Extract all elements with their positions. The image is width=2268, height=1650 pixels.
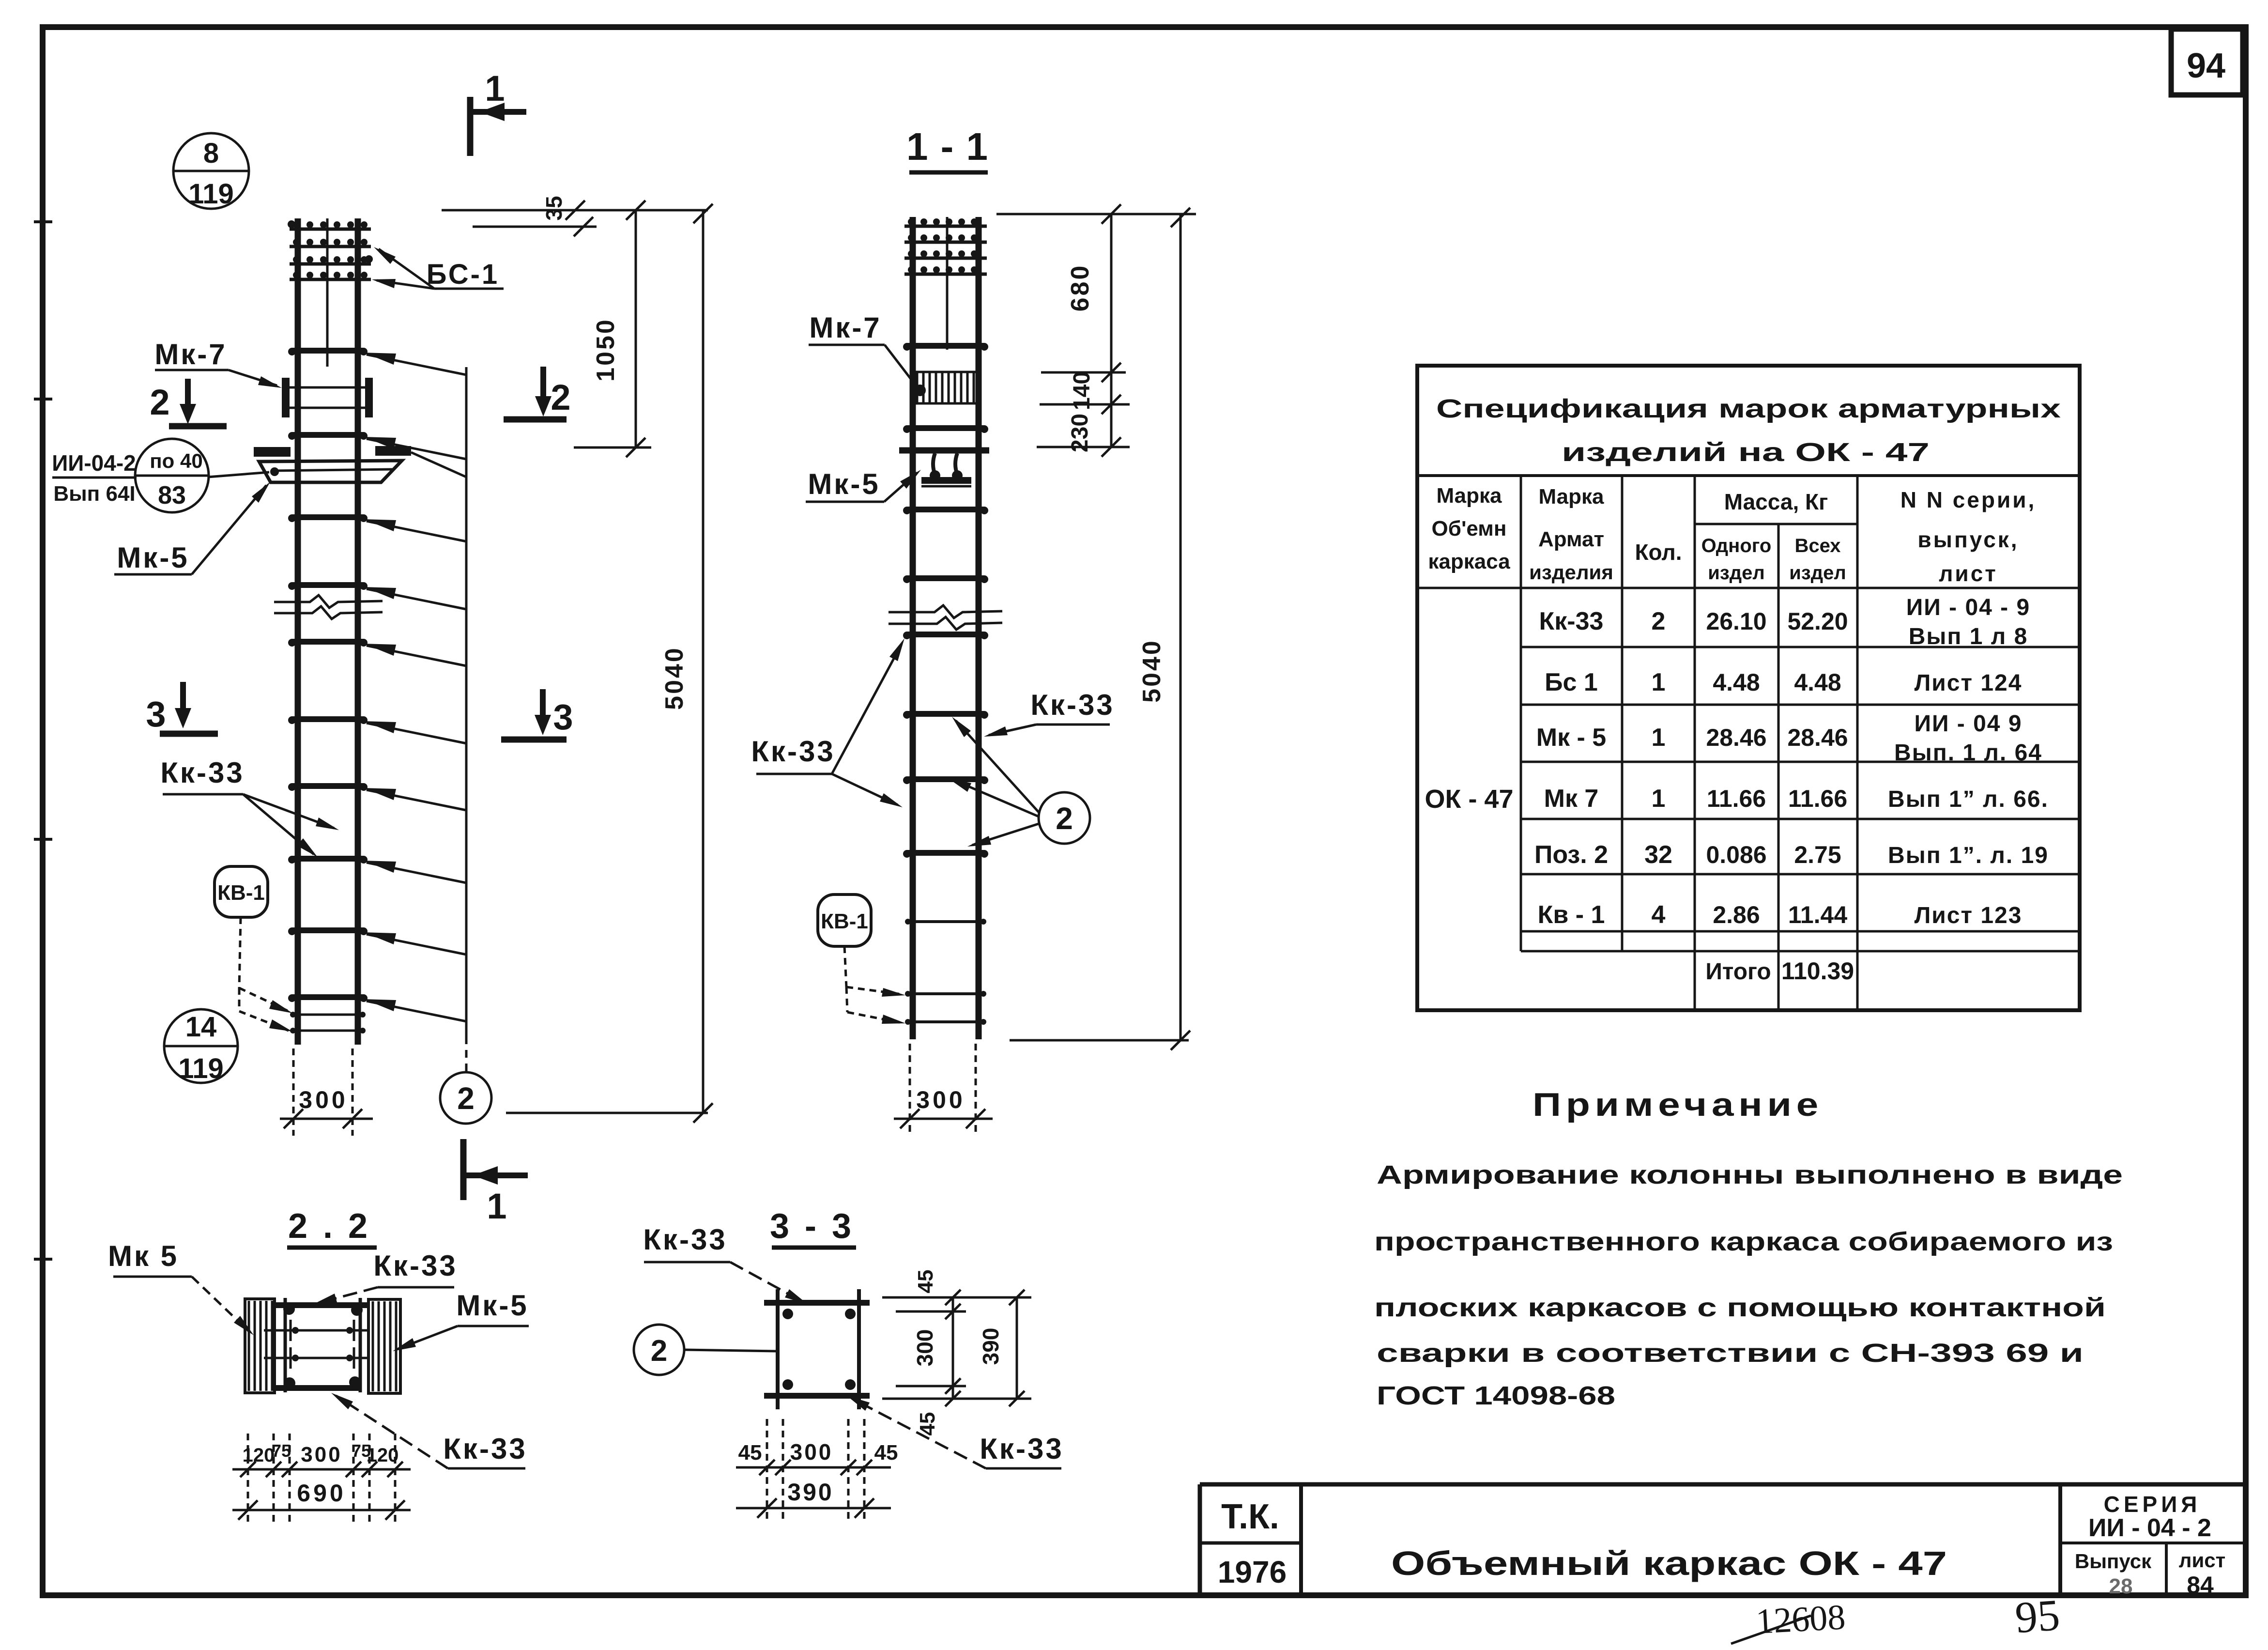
svg-text:45: 45 [874,1441,898,1465]
left elevation: Mk-5 console plates [254,447,291,457]
fold tick marks on left border [34,220,52,223]
svg-text:2 . 2: 2 . 2 [288,1207,370,1246]
svg-text:сварки в соответствии с СН: сварки в соответствии с СН-393 69 и [1377,1339,2084,1368]
left elevation: detail circle 14/119 [164,1009,238,1083]
section 1-1: stirrup rungs [907,343,984,349]
svg-text:пространственного каркаса со: пространственного каркаса собираемого из [1374,1227,2113,1256]
svg-text:300: 300 [790,1439,833,1465]
svg-text:84: 84 [2187,1572,2214,1599]
svg-text:2: 2 [150,382,169,422]
dimension 300 under section 1-1 [909,1044,911,1136]
svg-text:ОК - 47: ОК - 47 [1425,785,1513,814]
svg-text:Мк-5: Мк-5 [117,541,189,574]
svg-text:5040: 5040 [660,646,689,710]
left elevation: stirrup rungs [292,348,364,354]
svg-text:390: 390 [787,1479,833,1506]
svg-text:Марка: Марка [1436,484,1502,508]
svg-text:11.44: 11.44 [1788,901,1848,928]
dimension 5040 left [702,210,705,1113]
dimension 300 under left column [292,1049,295,1136]
svg-text:26.10: 26.10 [1706,608,1766,635]
svg-text:8: 8 [203,138,219,169]
specification table grid [1417,474,2080,477]
section 1-1: Mk-7 hatch band [915,371,976,373]
svg-text:2: 2 [457,1081,475,1116]
dimension 1050 [635,210,637,447]
svg-text:2: 2 [551,377,570,417]
svg-text:Армат: Армат [1538,527,1604,551]
left elevation: pos.2 circle [440,1072,491,1124]
svg-text:5040: 5040 [1138,639,1166,703]
svg-text:издел: издел [1708,562,1765,584]
svg-text:Кк-33: Кк-33 [980,1433,1063,1465]
svg-text:Армирование колонны выполнен: Армирование колонны выполнено в виде [1377,1160,2123,1189]
svg-text:120: 120 [367,1445,399,1466]
svg-text:ГОСТ 14098-68: ГОСТ 14098-68 [1377,1381,1615,1410]
svg-text:Лист 123: Лист 123 [1915,903,2023,928]
svg-text:Кк-33: Кк-33 [373,1249,457,1282]
left elevation: Mk-7 plates [282,378,290,417]
svg-text:Мк-5: Мк-5 [808,468,880,500]
svg-text:КВ-1: КВ-1 [217,881,265,905]
section 1-1: break symbol [889,605,1002,618]
svg-text:Вып 1”. л. 19: Вып 1”. л. 19 [1888,843,2049,868]
svg-text:2: 2 [1056,801,1073,836]
svg-text:Бс 1: Бс 1 [1545,668,1598,696]
svg-text:Всех: Всех [1794,535,1840,556]
svg-text:ИИ - 04 - 2: ИИ - 04 - 2 [2088,1514,2211,1542]
svg-text:Т.К.: Т.К. [1221,1497,1279,1536]
svg-text:28.46: 28.46 [1787,724,1848,751]
svg-text:32: 32 [1644,841,1672,869]
svg-text:300: 300 [912,1329,937,1367]
svg-text:1: 1 [1652,724,1666,752]
KV-1 dashed leaders section 1-1 [844,946,846,987]
svg-text:1050: 1050 [592,318,620,382]
svg-text:1: 1 [487,1186,506,1226]
dimensions 45 300 45 under 3-3 [766,1419,768,1521]
dimension 35 top [442,209,708,212]
svg-text:3: 3 [146,694,166,734]
svg-text:Об'емн: Об'емн [1432,517,1507,540]
dimension 390 right of 3-3 [1016,1297,1018,1399]
svg-text:119: 119 [188,178,234,210]
svg-text:14: 14 [185,1011,217,1043]
svg-text:плоских каркасов с помощью: плоских каркасов с помощью контактной [1374,1293,2106,1322]
section 1-1: longitudinal bar left [910,217,916,1039]
svg-text:Вып. 1 л. 64: Вып. 1 л. 64 [1894,740,2042,766]
svg-text:95: 95 [2013,1590,2061,1642]
dimensions 45 300 45 right of 3-3 [882,1296,1031,1299]
pos.2 circle section 3-3 [634,1325,684,1375]
svg-text:3 - 3: 3 - 3 [770,1207,854,1246]
svg-text:издел: издел [1789,562,1846,584]
svg-text:1 - 1: 1 - 1 [906,125,989,168]
left elevation: KV-1 dashed leaders [239,917,241,988]
svg-text:Одного: Одного [1701,535,1772,556]
svg-text:35: 35 [541,196,567,220]
svg-text:выпуск,: выпуск, [1917,527,2019,552]
svg-text:лист: лист [1939,561,1998,586]
sheet number box 94 [2171,29,2243,95]
svg-text:Кв - 1: Кв - 1 [1538,901,1605,929]
svg-text:каркаса: каркаса [1428,550,1510,573]
svg-text:45: 45 [738,1441,762,1465]
svg-text:2.86: 2.86 [1713,901,1760,928]
svg-text:Кк-33: Кк-33 [1539,607,1604,635]
svg-text:Мк-7: Мк-7 [809,311,881,344]
svg-text:Итого: Итого [1705,959,1771,985]
section 1-1: mesh lines with dots [904,225,987,228]
svg-text:0.086: 0.086 [1706,841,1766,868]
svg-text:45: 45 [914,1270,937,1294]
section 2-2: left end-plate hatched [245,1299,275,1393]
svg-text:СЕРИЯ: СЕРИЯ [2104,1492,2201,1517]
svg-text:230: 230 [1067,414,1093,452]
left elevation: break symbol [274,595,383,608]
svg-text:28: 28 [2109,1574,2133,1598]
pos.2 circle section 1-1 [1039,792,1090,844]
svg-text:Вып 64I: Вып 64I [53,482,135,506]
detail circle 8/119 [173,133,249,209]
svg-text:КВ-1: КВ-1 [821,910,868,933]
dimensions 120 75 300 75 120 under 2-2 [247,1434,249,1523]
svg-text:ИИ-04-2: ИИ-04-2 [52,450,136,476]
svg-text:БС-1: БС-1 [427,259,499,290]
svg-text:94: 94 [2187,46,2225,85]
svg-text:Поз. 2: Поз. 2 [1534,841,1608,869]
svg-text:140: 140 [1069,371,1095,410]
svg-text:изделия: изделия [1529,561,1613,584]
svg-text:11.66: 11.66 [1788,785,1847,812]
svg-text:Кол.: Кол. [1635,540,1682,565]
left elevation: diagonal leaders pos.2 [367,355,466,375]
svg-text:Вып 1” л. 66.: Вып 1” л. 66. [1888,786,2049,812]
svg-text:120: 120 [243,1445,275,1466]
svg-text:75: 75 [272,1441,291,1461]
svg-text:690: 690 [297,1480,346,1507]
svg-text:2: 2 [651,1334,667,1368]
title block frame [1200,1482,2246,1487]
svg-text:52.20: 52.20 [1787,608,1848,635]
svg-text:по 40: по 40 [150,449,202,472]
dimension 390 under 3-3 [736,1507,891,1510]
left elevation: Mk-5 console trapezoid [259,461,402,482]
left elevation: longitudinal bar left [295,218,301,1045]
svg-text:2.75: 2.75 [1794,841,1841,868]
left elevation: longitudinal bar right [355,218,361,1045]
section cut 1 top [467,97,474,156]
svg-text:Кк-33: Кк-33 [443,1433,527,1465]
KV-1 label section 1-1 [818,894,871,946]
svg-text:Мк 5: Мк 5 [108,1240,179,1272]
section 1-1: longitudinal bar right [976,217,982,1039]
svg-text:Кк-33: Кк-33 [751,735,835,768]
svg-text:4.48: 4.48 [1713,669,1760,696]
dimension 5040 right [1180,214,1182,1040]
svg-text:1976: 1976 [1218,1555,1287,1589]
section 2-2: right end-plate hatched [368,1299,400,1393]
svg-text:Выпуск: Выпуск [2075,1550,2152,1573]
svg-text:лист: лист [2179,1549,2225,1572]
svg-text:28.46: 28.46 [1706,724,1766,751]
svg-text:Кк-33: Кк-33 [643,1223,727,1256]
svg-text:1: 1 [1652,785,1666,813]
svg-text:110.39: 110.39 [1781,957,1854,985]
svg-text:45: 45 [916,1412,939,1436]
svg-text:390: 390 [978,1328,1003,1365]
svg-text:Мк - 5: Мк - 5 [1536,724,1606,752]
svg-text:ИИ - 04 - 9: ИИ - 04 - 9 [1906,595,2030,620]
svg-text:119: 119 [178,1053,224,1084]
svg-text:Масса, Кг: Масса, Кг [1724,489,1828,514]
svg-text:300: 300 [299,1086,348,1113]
svg-text:1: 1 [485,68,505,108]
section 3-3: cage square outline [764,1300,870,1306]
dimensions 680 140 230 [996,213,1196,216]
svg-text:2: 2 [1652,607,1666,635]
svg-text:11.66: 11.66 [1707,785,1766,812]
svg-text:Кк-33: Кк-33 [1030,689,1114,721]
svg-text:Кк-33: Кк-33 [160,756,244,789]
svg-text:изделий на ОК - 47: изделий на ОК - 47 [1562,438,1930,467]
section 2-2: cage outline [274,1302,369,1308]
left elevation: middle thin bar [326,218,329,367]
svg-text:ИИ - 04 9: ИИ - 04 9 [1914,711,2022,737]
svg-text:Марка: Марка [1538,485,1604,509]
left elevation: KV-1 label [215,866,268,917]
svg-text:83: 83 [158,481,186,509]
section 1-1: Mk-5 plate and anchors [899,447,989,454]
svg-text:Мк-7: Мк-7 [154,338,227,370]
svg-text:4.48: 4.48 [1794,669,1841,696]
left elevation: mesh BS-1 lines with dots [290,228,371,231]
svg-text:3: 3 [553,697,573,737]
dimension 690 under 2-2 [232,1509,411,1511]
svg-text:Лист 124: Лист 124 [1915,670,2023,696]
svg-text:Объемный каркас ОК - 47: Объемный каркас ОК - 47 [1391,1544,1947,1582]
svg-text:Примечание: Примечание [1532,1086,1823,1123]
svg-text:4: 4 [1652,901,1666,929]
svg-text:N N серии,: N N серии, [1900,487,2037,512]
left elevation: leader gather line to pos.2 circle [465,367,468,1036]
svg-text:Спецификация марок арматурны: Спецификация марок арматурных [1436,394,2061,423]
svg-text:300: 300 [916,1086,965,1113]
svg-text:1: 1 [1652,668,1666,696]
svg-text:Мк 7: Мк 7 [1544,785,1599,813]
section cut 1 bottom [460,1139,467,1200]
specification table outer box [1417,366,2080,1010]
svg-text:Вып 1 л 8: Вып 1 л 8 [1909,624,2028,649]
svg-text:Мк-5: Мк-5 [456,1289,528,1322]
svg-text:680: 680 [1066,264,1094,312]
svg-text:300: 300 [301,1443,342,1466]
section 1-1: middle thin bar [946,217,949,350]
section 2-2: middle bars with cross ticks [264,1329,369,1332]
